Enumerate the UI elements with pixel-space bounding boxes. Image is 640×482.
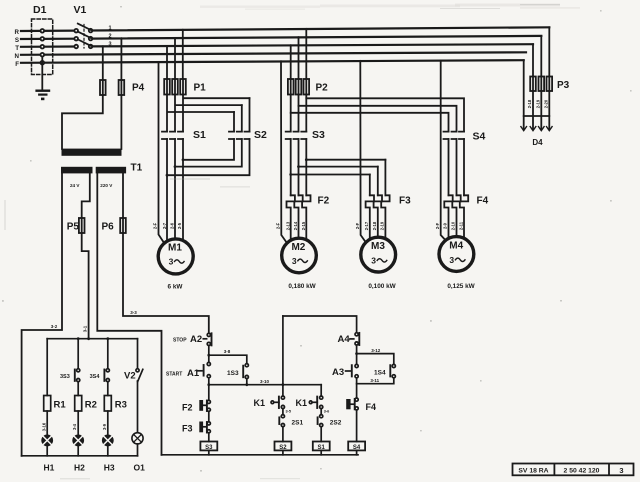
wire branch H2 top [77, 339, 79, 369]
resistor R1 [44, 396, 51, 412]
svg-text:2-17: 2-17 [364, 221, 369, 230]
svg-text:2-13: 2-13 [286, 221, 291, 230]
lamp O1 [132, 433, 143, 456]
wire A3 to F4 [356, 384, 358, 398]
svg-text:3-16: 3-16 [41, 422, 46, 431]
svg-text:R2: R2 [85, 400, 97, 411]
wire T to P3 [532, 44, 534, 76]
wire 2S2 to coil S1 [320, 427, 322, 442]
coil S3 [200, 442, 217, 451]
wire control bottom rail [162, 454, 359, 456]
ground [37, 89, 49, 91]
transformer T1 primary [62, 149, 122, 156]
overload contact F4 [346, 399, 350, 409]
svg-text:2-F: 2-F [153, 222, 158, 229]
svg-text:START: START [166, 372, 182, 378]
wire F3 to coil S3 [208, 433, 210, 442]
svg-text:3-6: 3-6 [324, 410, 330, 414]
coil S4 [348, 442, 365, 451]
svg-text:STOP: STOP [173, 338, 187, 344]
wire M1 phase3 lower [182, 139, 184, 240]
wire tap to S4 col1 [291, 95, 449, 132]
wire 2-F M2 [281, 61, 287, 243]
coil S2 [275, 442, 292, 451]
svg-text:F4: F4 [477, 196, 489, 207]
svg-text:K1: K1 [254, 398, 266, 408]
wire lamp top rail [47, 338, 137, 340]
wire M1 phase1 lower [166, 139, 168, 240]
svg-text:0,125 kW: 0,125 kW [447, 283, 475, 290]
fuse P1c [180, 79, 186, 95]
svg-text:0,100 kW: 0,100 kW [368, 283, 396, 290]
svg-text:1: 1 [109, 26, 112, 32]
wire S to P3 [540, 36, 542, 77]
svg-text:P6: P6 [102, 222, 115, 233]
lamp H1 [41, 435, 53, 456]
svg-text:V2: V2 [124, 371, 136, 382]
wire R drop to P2 [305, 29, 307, 79]
svg-text:2-18: 2-18 [372, 221, 377, 230]
wire M1 phase1 upper [167, 95, 234, 132]
wire M2 phase2 upper [298, 106, 300, 132]
svg-text:1S3: 1S3 [227, 370, 239, 377]
wire T drop to P2 [290, 45, 292, 79]
wire D1 to ground [41, 57, 43, 91]
wire S2 col1 [183, 112, 234, 160]
svg-text:M4: M4 [449, 241, 463, 252]
svg-text:S3: S3 [312, 129, 325, 141]
svg-text:P3: P3 [557, 80, 570, 91]
wire M3 col1 [369, 175, 371, 196]
motor M2 [282, 238, 317, 273]
svg-text:F4: F4 [366, 402, 377, 412]
wire lamp bottom rail [22, 455, 138, 457]
svg-text:2-F: 2-F [276, 222, 281, 229]
wire bus N [21, 52, 526, 55]
svg-text:S1: S1 [193, 129, 206, 141]
svg-text:24 V: 24 V [70, 183, 80, 188]
svg-text:D1: D1 [33, 4, 47, 16]
wire bus T [21, 44, 533, 47]
svg-text:2-18: 2-18 [527, 99, 532, 108]
fuse P2b [296, 79, 302, 95]
wire 3-12 branch [357, 354, 394, 365]
svg-text:3S4: 3S4 [90, 374, 101, 380]
lamp H2 [72, 435, 84, 456]
svg-text:N: N [15, 53, 20, 60]
wire 220V left lead [97, 173, 161, 454]
wire S drop to P2 [298, 37, 300, 79]
wire 3-3 [123, 233, 209, 333]
contactor S2 [229, 132, 250, 139]
wire K1b to 2S2 [320, 409, 322, 415]
fuse P1a [164, 79, 170, 95]
svg-text:2-9: 2-9 [443, 222, 448, 229]
svg-text:S: S [15, 37, 19, 44]
svg-text:H1: H1 [44, 463, 55, 473]
overload F2 heaters [287, 195, 295, 240]
svg-text:3-3: 3-3 [130, 310, 137, 315]
wire 3-8 branch [209, 355, 247, 363]
contact 2S1 [278, 417, 280, 424]
wire P3c down [548, 91, 550, 130]
svg-text:SV 18 RA: SV 18 RA [518, 468, 548, 475]
wire 3-2 [22, 173, 62, 455]
scan noise (decorative) [200, 4, 580, 10]
wire T to P4 left fuse [102, 46, 104, 80]
coil S1 [313, 442, 330, 451]
wire bus S [21, 36, 541, 39]
svg-text:F3: F3 [399, 196, 411, 207]
svg-text:A2: A2 [190, 334, 202, 345]
svg-text:H2: H2 [74, 463, 85, 473]
fuse P6 [120, 218, 126, 233]
svg-text:2-19: 2-19 [536, 99, 541, 108]
fuse P3b [539, 77, 545, 92]
svg-text:3: 3 [371, 255, 376, 265]
motor M4 [439, 237, 474, 272]
wire tap to S4 col3 [306, 95, 464, 132]
fuse P3c [547, 77, 553, 92]
wire M1 phase2 upper [175, 95, 242, 132]
svg-text:0,180 kW: 0,180 kW [288, 283, 316, 290]
svg-text:F: F [15, 61, 19, 68]
wire bus R [21, 27, 549, 31]
svg-text:6 kW: 6 kW [168, 284, 184, 291]
transformer T1 secondary 24V [61, 167, 93, 174]
wire M2 phase1 upper [290, 113, 292, 132]
svg-text:3-11: 3-11 [370, 378, 379, 383]
svg-text:P5: P5 [67, 222, 80, 233]
wire M3 col2 [377, 167, 379, 196]
svg-text:K1: K1 [296, 398, 308, 408]
contactor S4 [444, 132, 465, 139]
wire 2-F M3 [360, 61, 366, 243]
svg-text:A1: A1 [187, 368, 200, 379]
wire D4 link [524, 115, 550, 117]
svg-text:3S3: 3S3 [60, 374, 70, 380]
fuse P4b [119, 80, 125, 95]
wire P3b down [540, 91, 542, 130]
wire S drop to P1 [174, 38, 176, 79]
title block [513, 464, 634, 476]
wire K1a to 2S1 [282, 409, 284, 415]
wire P3a down [532, 91, 534, 130]
contactor S3 [286, 132, 307, 139]
svg-text:3-2: 3-2 [51, 324, 58, 329]
fuse P4a [100, 80, 106, 95]
svg-text:2: 2 [109, 34, 112, 40]
wire T drop to P1 [166, 46, 168, 79]
wire M2 phase3 with tap to M3 col3 [306, 139, 385, 195]
wire K1 branch1 vertical [282, 316, 284, 396]
svg-text:P1: P1 [194, 83, 207, 94]
svg-text:T: T [15, 45, 19, 52]
svg-text:3-4: 3-4 [72, 423, 77, 430]
wire A4 to A3 [356, 345, 358, 364]
wire A1 to junction [208, 378, 210, 401]
svg-text:F3: F3 [182, 424, 193, 434]
svg-text:A3: A3 [332, 367, 344, 378]
svg-text:2-19: 2-19 [380, 221, 385, 230]
svg-text:2 50 42 120: 2 50 42 120 [564, 468, 600, 475]
svg-text:T1: T1 [131, 163, 143, 174]
wire S to P4 right fuse [120, 38, 122, 80]
wire bus F [21, 60, 524, 63]
wire 3-1 [82, 233, 89, 339]
wire branch H3 top [107, 339, 109, 369]
fuse P2a [288, 79, 294, 95]
wire F2 to F3 [208, 411, 210, 421]
svg-text:3-5: 3-5 [286, 410, 292, 414]
wire tap to S4 col2 [299, 95, 457, 132]
svg-text:2-14: 2-14 [293, 221, 298, 230]
contact 2S2 [317, 417, 319, 424]
overload F4 heaters [444, 195, 452, 238]
svg-text:3: 3 [292, 256, 297, 266]
fuse P3a [530, 77, 536, 92]
wire 2-F M1 [159, 62, 164, 242]
svg-text:M2: M2 [291, 242, 305, 253]
svg-text:3: 3 [619, 466, 623, 475]
svg-text:2-7: 2-7 [162, 222, 167, 229]
wire M4 col3 [463, 139, 465, 195]
svg-text:R: R [15, 29, 20, 36]
svg-text:S4: S4 [473, 131, 486, 143]
motor M1 [158, 239, 193, 274]
svg-text:2-15: 2-15 [301, 221, 306, 230]
svg-text:2-10: 2-10 [451, 221, 456, 230]
wire P4b to T1 [120, 95, 122, 149]
resistor R2 [75, 396, 82, 412]
wire rail 3-10 [209, 384, 321, 386]
wire branch to A4 [283, 316, 357, 333]
svg-text:R1: R1 [54, 400, 67, 411]
wire K1b top [320, 385, 322, 396]
wire branch H1 [46, 339, 48, 396]
wire M2 phase2 with tap to M3 col2 [299, 139, 378, 195]
svg-text:1S4: 1S4 [374, 369, 386, 376]
svg-text:3: 3 [449, 255, 454, 265]
wire R drop to P1 [182, 30, 184, 79]
wire 2S1 to coil S2 [282, 427, 284, 442]
fuse P1b [172, 79, 178, 95]
svg-text:3-8: 3-8 [224, 349, 231, 354]
svg-text:F2: F2 [182, 403, 193, 413]
svg-text:3: 3 [169, 257, 174, 267]
svg-text:2-F: 2-F [355, 222, 360, 229]
svg-text:A4: A4 [338, 334, 351, 345]
lamp H3 [102, 435, 114, 456]
overload F3 heaters [366, 195, 374, 238]
svg-text:2-5: 2-5 [177, 222, 182, 229]
motor M3 [361, 237, 396, 272]
svg-text:S2: S2 [254, 129, 267, 141]
node link dots M1 [182, 158, 185, 161]
connector D4 arrows [521, 127, 527, 131]
fuse P5 [79, 218, 85, 233]
wire S2 col3 [167, 98, 250, 175]
svg-text:2-F: 2-F [435, 222, 440, 229]
wire F4 to coil S4 [356, 410, 358, 442]
fuse P2c [304, 79, 310, 95]
svg-text:P2: P2 [316, 83, 329, 94]
svg-text:3-12: 3-12 [371, 348, 381, 353]
svg-text:2S1: 2S1 [292, 420, 304, 427]
wire M2 phase1 with tap to M3 col1 [291, 139, 370, 195]
wire P4a to T1 [62, 95, 103, 149]
wire S2 col2 [175, 105, 242, 167]
svg-text:M1: M1 [168, 243, 182, 254]
transformer T1 secondary 220V [96, 167, 126, 174]
svg-text:2S2: 2S2 [330, 420, 342, 427]
resistor R3 [104, 396, 111, 412]
wire 3-11 [357, 378, 394, 384]
wire M1 phase3 upper [183, 95, 250, 132]
wire 220V right lead to P6 [122, 173, 124, 218]
svg-text:3-9: 3-9 [102, 423, 107, 430]
svg-text:P4: P4 [132, 83, 145, 94]
svg-text:3-1: 3-1 [83, 325, 88, 332]
svg-text:2-11: 2-11 [458, 221, 463, 230]
svg-text:3: 3 [109, 41, 112, 47]
terminal block D1 [32, 19, 53, 75]
svg-text:V1: V1 [74, 4, 87, 16]
svg-text:O1: O1 [134, 463, 146, 473]
wire F to D4 [523, 60, 525, 129]
svg-text:H3: H3 [104, 463, 115, 473]
wire M4 col2 [456, 139, 458, 195]
svg-text:220 V: 220 V [100, 183, 113, 188]
svg-text:M3: M3 [371, 241, 385, 252]
wire 24V right lead to P5 [82, 173, 90, 218]
svg-text:R3: R3 [115, 400, 127, 411]
svg-text:D4: D4 [532, 138, 543, 147]
wire 2-F M4 [441, 61, 448, 243]
wire M2 phase3 upper [305, 98, 307, 131]
svg-text:2-20: 2-20 [544, 99, 549, 108]
wire M4 col1 [448, 139, 450, 195]
svg-text:2-6: 2-6 [169, 222, 174, 229]
wire A2 to A1 [208, 346, 210, 363]
wire M1 phase2 lower [174, 139, 176, 238]
wire R to P3 [548, 27, 550, 76]
svg-text:3-10: 3-10 [260, 379, 270, 384]
contactor S1 [162, 132, 183, 139]
svg-text:F2: F2 [318, 196, 330, 207]
wire M3 col3 [384, 160, 386, 196]
